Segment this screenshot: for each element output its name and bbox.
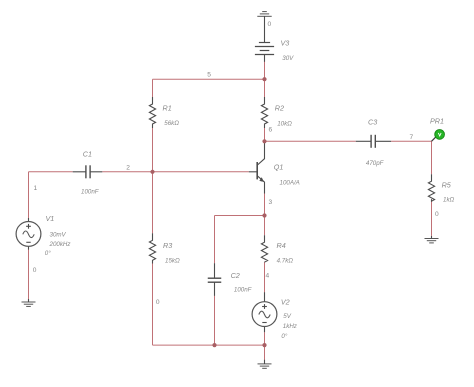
svg-text:7: 7 [410, 134, 414, 141]
svg-text:0: 0 [435, 211, 439, 218]
svg-text:2: 2 [126, 164, 130, 171]
svg-text:R2: R2 [275, 104, 284, 113]
svg-text:C1: C1 [83, 150, 92, 159]
svg-text:1: 1 [34, 185, 38, 192]
svg-text:5: 5 [207, 72, 211, 79]
svg-text:R4: R4 [277, 241, 286, 250]
svg-text:56kΩ: 56kΩ [164, 120, 179, 127]
svg-text:0: 0 [268, 21, 272, 28]
svg-text:10kΩ: 10kΩ [277, 121, 292, 128]
svg-text:V3: V3 [281, 39, 290, 48]
svg-text:Q1: Q1 [274, 163, 284, 172]
svg-text:1kHz: 1kHz [283, 323, 298, 330]
svg-text:R3: R3 [163, 241, 172, 250]
svg-text:30V: 30V [282, 55, 294, 62]
svg-text:200kHz: 200kHz [49, 241, 72, 248]
svg-text:V2: V2 [281, 298, 290, 307]
svg-text:100nF: 100nF [234, 287, 253, 294]
svg-text:100A/A: 100A/A [280, 180, 300, 187]
svg-text:5V: 5V [283, 313, 291, 320]
svg-text:3: 3 [269, 199, 273, 206]
svg-text:R5: R5 [442, 181, 452, 190]
svg-text:0°: 0° [45, 250, 51, 257]
svg-text:30mV: 30mV [50, 232, 67, 239]
svg-text:PR1: PR1 [430, 117, 444, 126]
svg-text:100nF: 100nF [81, 189, 100, 196]
svg-text:470pF: 470pF [366, 160, 385, 167]
svg-text:0°: 0° [281, 333, 287, 340]
svg-text:V1: V1 [46, 214, 55, 223]
svg-text:R1: R1 [163, 104, 172, 113]
svg-text:4: 4 [266, 273, 270, 280]
svg-text:0: 0 [156, 299, 160, 306]
svg-text:15kΩ: 15kΩ [165, 258, 180, 265]
svg-text:C2: C2 [231, 271, 240, 280]
svg-text:6: 6 [269, 127, 273, 134]
svg-text:4.7kΩ: 4.7kΩ [277, 258, 294, 265]
svg-text:C3: C3 [368, 118, 377, 127]
svg-text:1kΩ: 1kΩ [443, 197, 455, 204]
svg-text:0: 0 [33, 267, 37, 274]
